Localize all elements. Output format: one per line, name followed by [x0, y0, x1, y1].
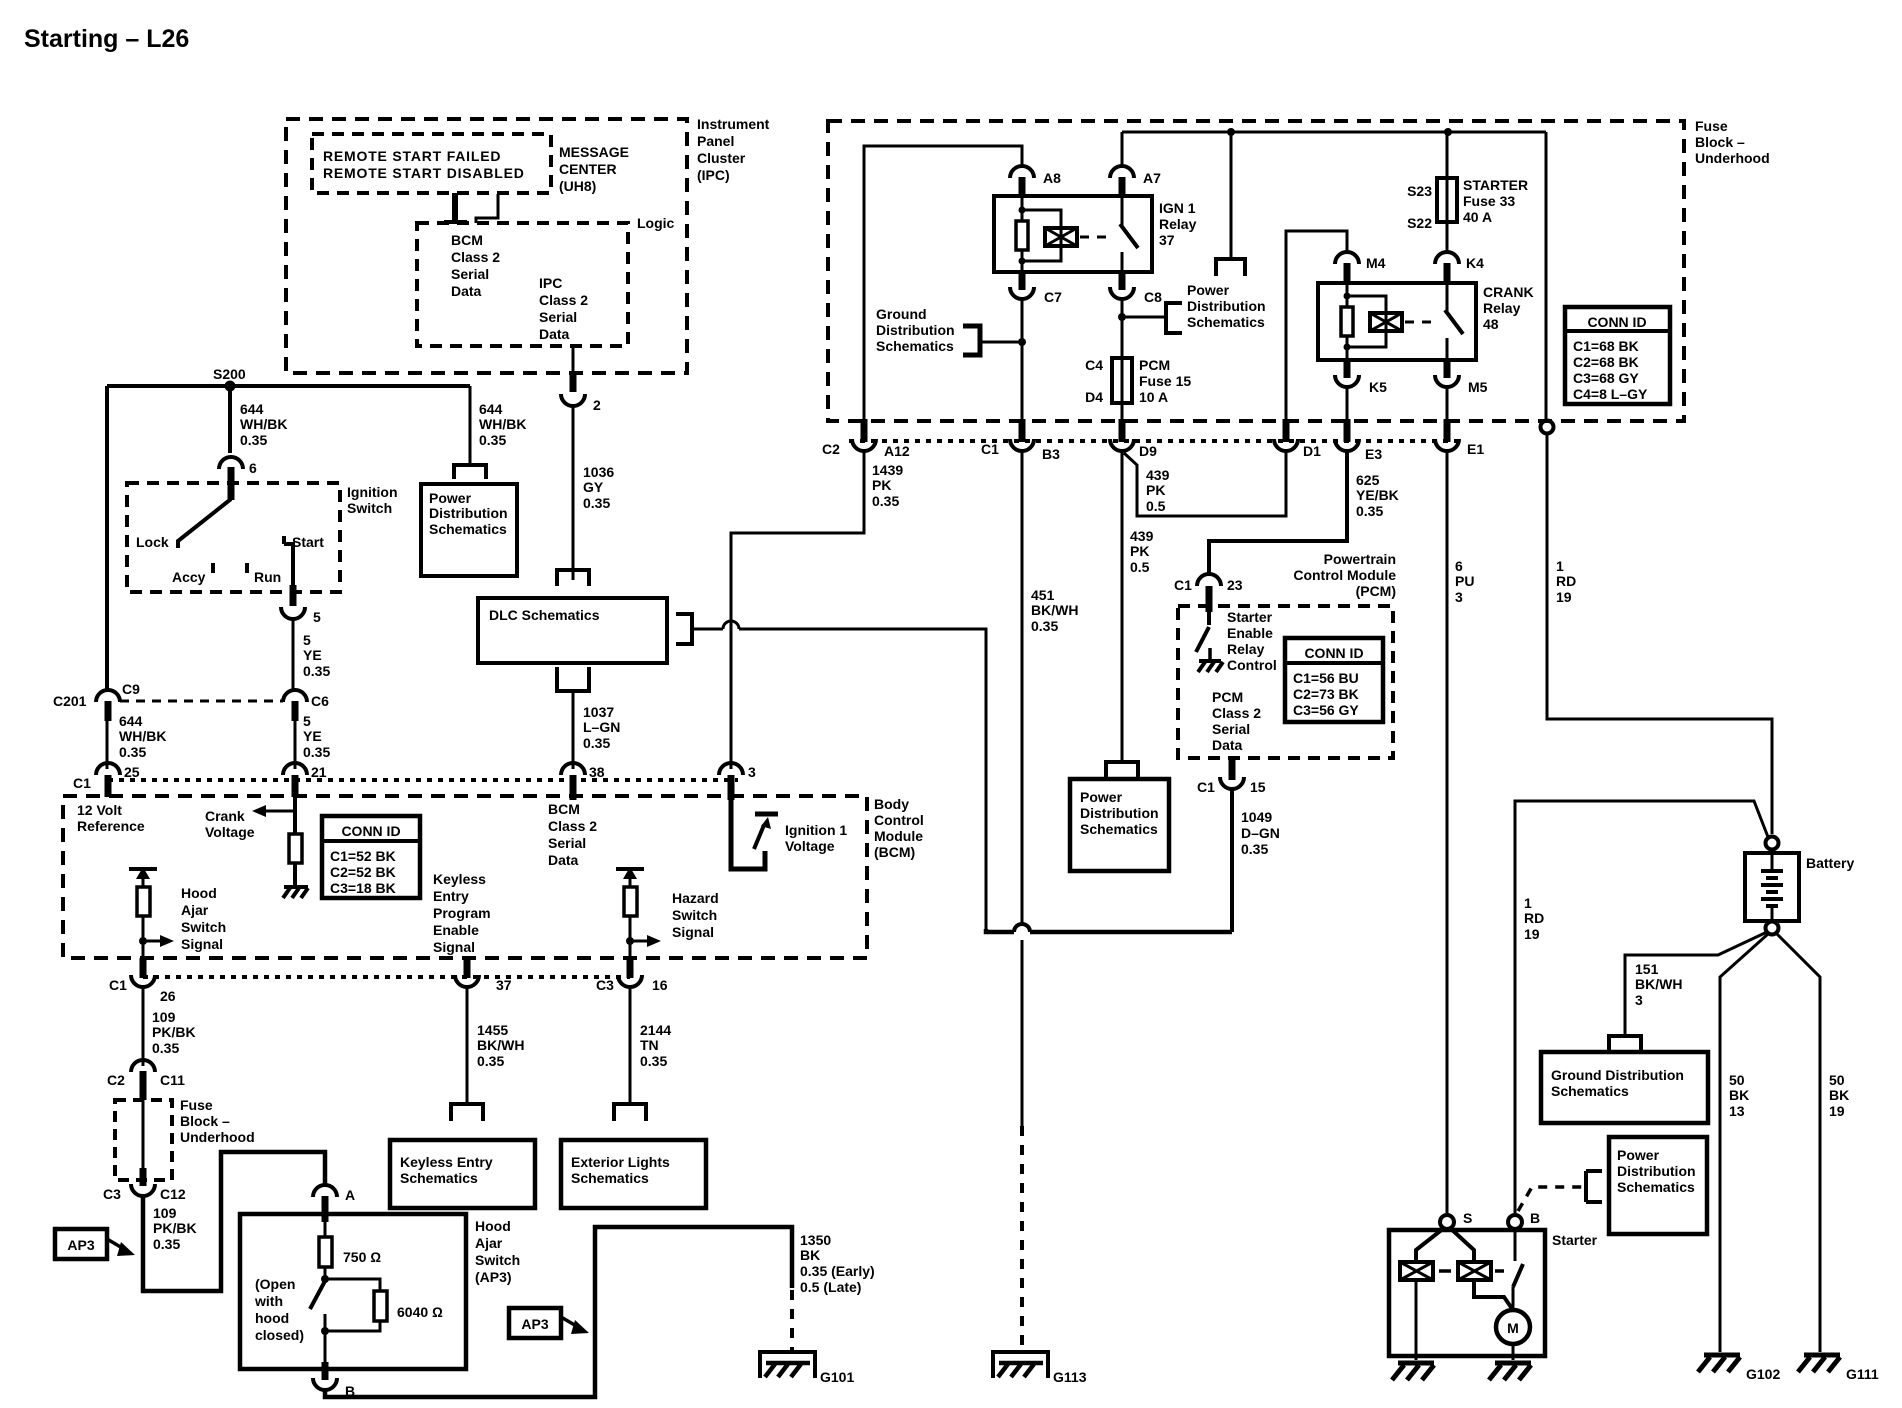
wire pin 16 to exterior lights (2144 TN) — [629, 987, 632, 1104]
connector C2 / C11 — [107, 1060, 185, 1100]
wire E3 to PCM C1-23 (625 YE/BK) — [1209, 451, 1347, 573]
svg-text:151: 151 — [1635, 961, 1659, 977]
svg-text:644: 644 — [119, 713, 143, 729]
fuse block underhood dashed box — [828, 118, 1770, 421]
wire label 6 PU 3 — [1455, 558, 1474, 605]
connector C6 — [283, 690, 329, 721]
svg-text:48: 48 — [1483, 316, 1499, 332]
hood switch lower contact — [324, 1314, 327, 1331]
svg-text:0.5 (Late): 0.5 (Late) — [800, 1279, 861, 1295]
starter box — [1389, 1230, 1598, 1356]
wire hop over pin-3 wire — [723, 621, 739, 629]
svg-text:C2=68 BK: C2=68 BK — [1573, 354, 1639, 370]
svg-text:1049: 1049 — [1241, 809, 1272, 825]
svg-text:REMOTE START FAILED: REMOTE START FAILED — [323, 148, 501, 164]
svg-text:G111: G111 — [1846, 1366, 1879, 1382]
connector pin 3 — [719, 763, 756, 800]
svg-text:YE: YE — [303, 728, 322, 744]
junction dot C7/ground-dist — [1018, 338, 1026, 346]
label starter enable relay control — [1227, 609, 1277, 673]
wire K5 to E3 — [1346, 387, 1349, 419]
svg-text:C9: C9 — [122, 681, 140, 697]
wire label 109 PK/BK 0.35 (below C12) — [153, 1205, 197, 1252]
wire E1 to starter S (6 PU) — [1446, 451, 1449, 1215]
wire D9 down to power distribution schematics — [1121, 451, 1124, 760]
ignition switch Start contact and wire to pin 5 — [284, 534, 324, 606]
svg-text:0.35 (Early): 0.35 (Early) — [800, 1263, 875, 1279]
svg-text:12 Volt: 12 Volt — [77, 802, 122, 818]
svg-text:Fuse 33: Fuse 33 — [1463, 193, 1515, 209]
svg-text:Battery: Battery — [1806, 855, 1854, 871]
svg-text:Data: Data — [1212, 737, 1243, 753]
svg-text:RD: RD — [1524, 910, 1544, 926]
svg-text:Relay: Relay — [1159, 216, 1197, 232]
connector pin 21 — [283, 763, 327, 797]
battery — [1745, 837, 1854, 935]
svg-text:Ignition 1: Ignition 1 — [785, 822, 847, 838]
svg-text:S23: S23 — [1407, 183, 1432, 199]
ground G111 — [1798, 1355, 1879, 1382]
CRANK relay 48 box — [1318, 283, 1534, 360]
svg-text:439: 439 — [1146, 467, 1170, 483]
svg-text:Ground Distribution: Ground Distribution — [1551, 1067, 1684, 1083]
svg-text:0.35: 0.35 — [303, 744, 330, 760]
svg-text:16: 16 — [652, 977, 668, 993]
svg-text:(UH8): (UH8) — [559, 178, 596, 194]
svg-text:DLC Schematics: DLC Schematics — [489, 607, 600, 623]
svg-text:Power: Power — [429, 490, 472, 506]
svg-text:TN: TN — [640, 1037, 659, 1053]
svg-text:3: 3 — [1635, 992, 1643, 1008]
svg-text:E3: E3 — [1365, 446, 1382, 462]
powertrain control module (PCM) label — [1293, 551, 1396, 599]
PCM fuse 15 10A — [1085, 357, 1191, 405]
svg-text:Block –: Block – — [1695, 134, 1745, 150]
svg-text:Control: Control — [1227, 657, 1277, 673]
svg-text:0.35: 0.35 — [479, 432, 506, 448]
svg-text:26: 26 — [160, 988, 176, 1004]
svg-text:Schematics: Schematics — [1551, 1083, 1629, 1099]
svg-text:BCM: BCM — [548, 801, 580, 817]
svg-text:E1: E1 — [1467, 441, 1484, 457]
wire label 1 RD 19 (upper) — [1556, 558, 1576, 605]
starter dashed actuator links — [1439, 1269, 1504, 1273]
connector C1 pin 23 — [1174, 574, 1243, 612]
wire dashed segment to G113 — [1020, 1126, 1024, 1352]
svg-text:439: 439 — [1130, 528, 1154, 544]
svg-text:0.35: 0.35 — [1031, 618, 1058, 634]
wire rail to A7 — [1121, 132, 1124, 165]
ignition switch Accy contact — [172, 563, 213, 585]
svg-text:Schematics: Schematics — [571, 1170, 649, 1186]
svg-text:Fuse: Fuse — [1695, 118, 1728, 134]
svg-text:Hazard: Hazard — [672, 890, 719, 906]
body control module (BCM) dashed box — [63, 796, 924, 958]
svg-text:D4: D4 — [1085, 389, 1103, 405]
svg-text:Schematics: Schematics — [1617, 1179, 1695, 1195]
power distribution schematics box (mid) — [1070, 762, 1169, 871]
svg-text:G102: G102 — [1746, 1366, 1780, 1382]
wire resistor to junction — [142, 916, 145, 971]
svg-text:750 Ω: 750 Ω — [343, 1249, 381, 1265]
connector pin 6 (ignition switch) — [219, 457, 257, 500]
svg-text:AP3: AP3 — [521, 1316, 548, 1332]
svg-text:C1=56 BU: C1=56 BU — [1293, 670, 1359, 686]
svg-text:Ground: Ground — [876, 306, 927, 322]
svg-text:C2: C2 — [107, 1072, 125, 1088]
svg-text:C1: C1 — [1197, 779, 1215, 795]
terminal circle (fuse block output) — [1541, 421, 1554, 434]
svg-text:BCM: BCM — [451, 232, 483, 248]
svg-text:WH/BK: WH/BK — [240, 416, 287, 432]
connector A8 — [1010, 166, 1061, 196]
svg-text:C4=8 L–GY: C4=8 L–GY — [1573, 386, 1648, 402]
svg-text:CONN ID: CONN ID — [341, 823, 400, 839]
svg-text:Schematics: Schematics — [1187, 314, 1265, 330]
CRANK relay dashed actuator link — [1405, 321, 1438, 324]
starter coil2 to motor link — [1474, 1280, 1513, 1310]
svg-text:Switch: Switch — [475, 1252, 520, 1268]
svg-text:C3: C3 — [103, 1186, 121, 1202]
svg-text:GY: GY — [583, 479, 604, 495]
svg-text:G113: G113 — [1053, 1369, 1087, 1385]
connector pin 38 — [561, 763, 605, 800]
wire starter B to battery positive (1 RD) — [1515, 801, 1768, 1216]
resistor (hood ajar signal) — [137, 887, 150, 916]
wire label 439 PK 0.5 (upper) — [1146, 467, 1170, 514]
svg-text:D–GN: D–GN — [1241, 825, 1280, 841]
svg-text:S22: S22 — [1407, 215, 1432, 231]
CRANK relay switch — [1445, 283, 1463, 360]
svg-text:3: 3 — [748, 764, 756, 780]
ground G101 — [760, 1352, 854, 1385]
ignition switch arm (Lock position) — [136, 499, 231, 550]
CONN ID table (BCM) — [322, 816, 420, 898]
svg-text:PK: PK — [872, 477, 891, 493]
hood switch arm — [310, 1281, 325, 1309]
svg-text:Keyless: Keyless — [433, 871, 486, 887]
svg-text:109: 109 — [153, 1205, 177, 1221]
svg-text:Distribution: Distribution — [876, 322, 955, 338]
svg-text:Instrument: Instrument — [697, 116, 770, 132]
wire label 1049 D-GN 0.35 — [1241, 809, 1280, 857]
svg-text:IGN 1: IGN 1 — [1159, 200, 1196, 216]
connector pin 5 — [281, 607, 321, 625]
svg-text:Distribution: Distribution — [1187, 298, 1266, 314]
wire battery negative to ground distribution (151 BK/WH) — [1625, 932, 1767, 1034]
svg-text:BK: BK — [1729, 1087, 1749, 1103]
svg-text:2: 2 — [593, 397, 601, 413]
svg-text:IPC: IPC — [539, 275, 562, 291]
svg-text:(PCM): (PCM) — [1356, 583, 1396, 599]
svg-text:15: 15 — [1250, 779, 1266, 795]
svg-text:19: 19 — [1556, 589, 1572, 605]
wire label 644 WH/BK 0.35 (below C9) — [119, 713, 166, 760]
svg-text:Class 2: Class 2 — [451, 249, 500, 265]
junction dot hood ajar — [139, 937, 147, 945]
wire C1-15 down (1049 D-GN) — [1230, 789, 1234, 932]
wire resistor to junction — [629, 916, 632, 971]
svg-text:3: 3 — [1455, 589, 1463, 605]
DLC right bracket to PCM wire — [676, 614, 723, 644]
svg-text:Distribution: Distribution — [1080, 805, 1159, 821]
svg-text:with: with — [254, 1293, 283, 1309]
svg-text:WH/BK: WH/BK — [119, 728, 166, 744]
wire S200 left branch down to C9 — [105, 386, 109, 691]
svg-text:Serial: Serial — [1212, 721, 1250, 737]
svg-text:Switch: Switch — [672, 907, 717, 923]
connector M4 — [1335, 252, 1386, 283]
label BCM class 2 serial data — [548, 801, 597, 868]
AP3 reference box (left) — [55, 1229, 135, 1259]
svg-text:L–GN: L–GN — [583, 719, 620, 735]
svg-text:0.5: 0.5 — [1146, 498, 1166, 514]
resistor (hazard signal) — [624, 887, 637, 916]
svg-text:BK: BK — [1829, 1087, 1849, 1103]
label PCM class 2 serial data — [1212, 689, 1261, 753]
wire pin 37 to keyless entry (1455 BK/WH) — [466, 987, 469, 1104]
svg-text:C3=68 GY: C3=68 GY — [1573, 370, 1639, 386]
AP3 reference box (right) — [509, 1308, 589, 1338]
svg-text:D1: D1 — [1303, 443, 1321, 459]
logic dashed box — [417, 215, 675, 346]
wire label 625 YE/BK 0.35 — [1356, 472, 1399, 519]
svg-text:6: 6 — [1455, 558, 1463, 574]
connector C201 inline row (dashed link C9-C6) — [53, 693, 283, 709]
wire label 1036 GY 0.35 — [583, 464, 614, 511]
svg-text:C1: C1 — [1174, 577, 1192, 593]
svg-text:(AP3): (AP3) — [475, 1269, 512, 1285]
svg-text:Fuse: Fuse — [180, 1097, 213, 1113]
svg-text:CONN ID: CONN ID — [1587, 314, 1646, 330]
svg-text:Enable: Enable — [1227, 625, 1273, 641]
connector pin 37 — [455, 958, 512, 993]
wire label 1350 BK 0.35/0.5 — [800, 1232, 875, 1295]
node S200 — [213, 366, 246, 392]
svg-text:625: 625 — [1356, 472, 1380, 488]
IGN1 relay coil symbol — [1045, 228, 1077, 246]
resistor 6040 ohm branch — [325, 1279, 443, 1331]
hood ajar switch (AP3) box — [240, 1214, 520, 1369]
svg-text:Switch: Switch — [181, 919, 226, 935]
svg-text:Data: Data — [539, 326, 570, 342]
ground G113 — [993, 1352, 1087, 1385]
svg-text:0.35: 0.35 — [240, 432, 267, 448]
svg-text:0.35: 0.35 — [583, 735, 610, 751]
svg-text:D9: D9 — [1139, 443, 1157, 459]
svg-text:1: 1 — [1556, 558, 1564, 574]
svg-text:PU: PU — [1455, 573, 1474, 589]
svg-text:50: 50 — [1729, 1072, 1745, 1088]
svg-text:Starting – L26: Starting – L26 — [24, 25, 189, 53]
wire C12 to hood ajar switch pin A — [143, 1152, 325, 1291]
svg-text:Schematics: Schematics — [429, 521, 507, 537]
svg-text:C1=52 BK: C1=52 BK — [330, 848, 396, 864]
svg-text:B: B — [1530, 1210, 1540, 1226]
ignition 1 voltage sense symbol — [731, 800, 847, 869]
svg-text:25: 25 — [124, 764, 140, 780]
connector E3 — [1335, 419, 1382, 462]
svg-text:C3: C3 — [596, 977, 614, 993]
wire label 1455 BK/WH 0.35 — [477, 1022, 524, 1069]
svg-text:19: 19 — [1829, 1103, 1845, 1119]
wire motor to ground — [1512, 1344, 1515, 1360]
connector K4 — [1435, 252, 1484, 283]
connector D9 — [1110, 419, 1157, 459]
wire battery negative to G111 (50 BK 19) — [1777, 934, 1820, 1352]
hazard signal right arrow — [630, 935, 661, 947]
svg-text:C12: C12 — [160, 1186, 186, 1202]
svg-text:Program: Program — [433, 905, 491, 921]
svg-text:C201: C201 — [53, 693, 87, 709]
svg-text:Power: Power — [1187, 282, 1230, 298]
svg-text:C7: C7 — [1044, 289, 1062, 305]
svg-text:Switch: Switch — [347, 500, 392, 516]
hazard switch signal input symbol — [616, 867, 644, 887]
svg-text:C3=56 GY: C3=56 GY — [1293, 702, 1359, 718]
svg-text:C2: C2 — [822, 441, 840, 457]
wire label 50 BK 13 — [1729, 1072, 1749, 1119]
wire logic box to pin 2 — [572, 346, 575, 374]
svg-text:Ignition: Ignition — [347, 484, 398, 500]
power distribution schematics box (under S200 branch) — [421, 465, 517, 576]
svg-text:S: S — [1463, 1210, 1472, 1226]
wire S200 down to pin 6 — [228, 386, 232, 453]
BCM connector row dotted line — [108, 778, 738, 782]
svg-text:BK/WH: BK/WH — [1031, 602, 1078, 618]
starter motor M — [1496, 1310, 1530, 1344]
CONN ID table (fuse block) — [1565, 307, 1670, 404]
wire C1-26 to C11 (109 PK/BK) — [142, 987, 145, 1066]
label hazard switch signal — [672, 890, 719, 940]
connector C1 / B3 — [981, 419, 1060, 462]
wire label 1439 PK 0.35 — [872, 462, 903, 509]
fuse block underhood small dashed box — [115, 1097, 255, 1180]
svg-text:(Open: (Open — [255, 1276, 295, 1292]
connector M5 — [1435, 360, 1488, 395]
wire coil1 to ground — [1415, 1330, 1418, 1360]
svg-text:Start: Start — [292, 534, 324, 550]
svg-text:6: 6 — [249, 460, 257, 476]
wire B3 below hop to G113 — [1021, 940, 1024, 1126]
svg-text:CENTER: CENTER — [559, 161, 617, 177]
junction dot hazard — [626, 937, 634, 945]
power distribution schematics box (starter area) — [1586, 1137, 1707, 1234]
wire label 109 PK/BK 0.35 — [152, 1009, 196, 1056]
svg-text:M: M — [1507, 1320, 1519, 1336]
connector C1 pin 15 — [1197, 758, 1266, 795]
svg-text:Logic: Logic — [637, 215, 675, 231]
svg-text:5: 5 — [303, 632, 311, 648]
svg-text:Hood: Hood — [475, 1218, 511, 1234]
svg-text:0.35: 0.35 — [477, 1053, 504, 1069]
wire S200 right branch down to Power Distribution bracket — [469, 386, 472, 464]
starter solenoid pull-in coil — [1400, 1228, 1444, 1330]
connector C1 pin 25 — [73, 763, 140, 797]
connector C1 pin 26 — [109, 958, 176, 1004]
wire A8 feed (up and over to A12 drop) — [864, 146, 1022, 419]
svg-text:Underhood: Underhood — [180, 1129, 255, 1145]
hood ajar signal right arrow — [143, 935, 174, 947]
svg-text:Control Module: Control Module — [1293, 567, 1396, 583]
svg-text:Serial: Serial — [539, 309, 577, 325]
svg-text:PK: PK — [1146, 482, 1165, 498]
svg-text:BK/WH: BK/WH — [1635, 976, 1682, 992]
svg-text:644: 644 — [240, 401, 264, 417]
wire M4 elbow to D1 drop — [1286, 231, 1347, 419]
svg-text:Control: Control — [874, 812, 924, 828]
svg-text:Exterior Lights: Exterior Lights — [571, 1154, 670, 1170]
svg-text:644: 644 — [479, 401, 503, 417]
wire fuse to K4 — [1446, 222, 1449, 252]
svg-text:MESSAGE: MESSAGE — [559, 144, 629, 160]
svg-text:Power: Power — [1617, 1147, 1660, 1163]
svg-text:Schematics: Schematics — [876, 338, 954, 354]
svg-text:(BCM): (BCM) — [874, 844, 915, 860]
svg-text:0.35: 0.35 — [1241, 841, 1268, 857]
connector E1 — [1435, 419, 1484, 457]
starter terminal B — [1508, 1210, 1540, 1229]
svg-text:C1: C1 — [981, 441, 999, 457]
svg-text:PK: PK — [1130, 543, 1149, 559]
svg-text:A: A — [345, 1187, 355, 1203]
label open with hood closed — [254, 1276, 304, 1343]
svg-text:Lock: Lock — [136, 534, 169, 550]
svg-text:21: 21 — [311, 764, 327, 780]
connector A7 — [1110, 166, 1161, 196]
starter switch — [1513, 1229, 1523, 1311]
svg-text:YE: YE — [303, 647, 322, 663]
svg-text:Starter: Starter — [1227, 609, 1273, 625]
wire label 5 YE 0.35 (above C6) — [303, 632, 330, 679]
starter enable relay control switch — [1196, 612, 1223, 672]
wire B3 down to hop (451 BK/WH) — [1021, 451, 1024, 924]
wire pin B to G101 (1350 BK) — [325, 1227, 792, 1397]
wire pin A to resistor — [324, 1222, 327, 1237]
svg-text:Class 2: Class 2 — [548, 818, 597, 834]
wire label 2144 TN 0.35 — [640, 1022, 671, 1069]
svg-text:Schematics: Schematics — [400, 1170, 478, 1186]
svg-text:BK/WH: BK/WH — [477, 1037, 524, 1053]
wire label 451 BK/WH 0.35 — [1031, 587, 1078, 634]
connector C3 pin 16 — [596, 958, 668, 993]
svg-text:Powertrain: Powertrain — [1324, 551, 1396, 567]
power distribution schematics label and brackets (fuse block) — [1122, 132, 1266, 333]
wire M5 to E1 — [1446, 387, 1449, 419]
IGN1 relay coil branch — [1016, 196, 1061, 272]
wire DLC lower bracket to pin 38 (1037 L-GN) — [572, 691, 575, 769]
ground (crank voltage internal) — [283, 887, 308, 898]
svg-text:0.35: 0.35 — [119, 744, 146, 760]
wire D9 branch to D1 (439 PK loop) — [1124, 451, 1286, 516]
svg-text:1350: 1350 — [800, 1232, 831, 1248]
svg-text:13: 13 — [1729, 1103, 1745, 1119]
wire message center to logic box (thin elbow) — [476, 194, 498, 223]
wire through small fuse block — [142, 1100, 145, 1168]
PCM dashed box — [1178, 606, 1393, 758]
svg-text:40 A: 40 A — [1463, 209, 1492, 225]
svg-text:0.5: 0.5 — [1130, 559, 1150, 575]
svg-text:38: 38 — [589, 764, 605, 780]
dashed wire starter B to power distribution bracket — [1518, 1187, 1586, 1211]
fuse block lower connector row dotted line — [849, 439, 1461, 443]
svg-text:(IPC): (IPC) — [697, 167, 730, 183]
svg-text:Hood: Hood — [181, 885, 217, 901]
wire A12 elbow down to pin 3 — [731, 451, 864, 769]
starter solenoid hold-in coil — [1450, 1228, 1491, 1280]
connector C2 / A12 — [822, 419, 910, 459]
ground G102 — [1698, 1355, 1780, 1382]
